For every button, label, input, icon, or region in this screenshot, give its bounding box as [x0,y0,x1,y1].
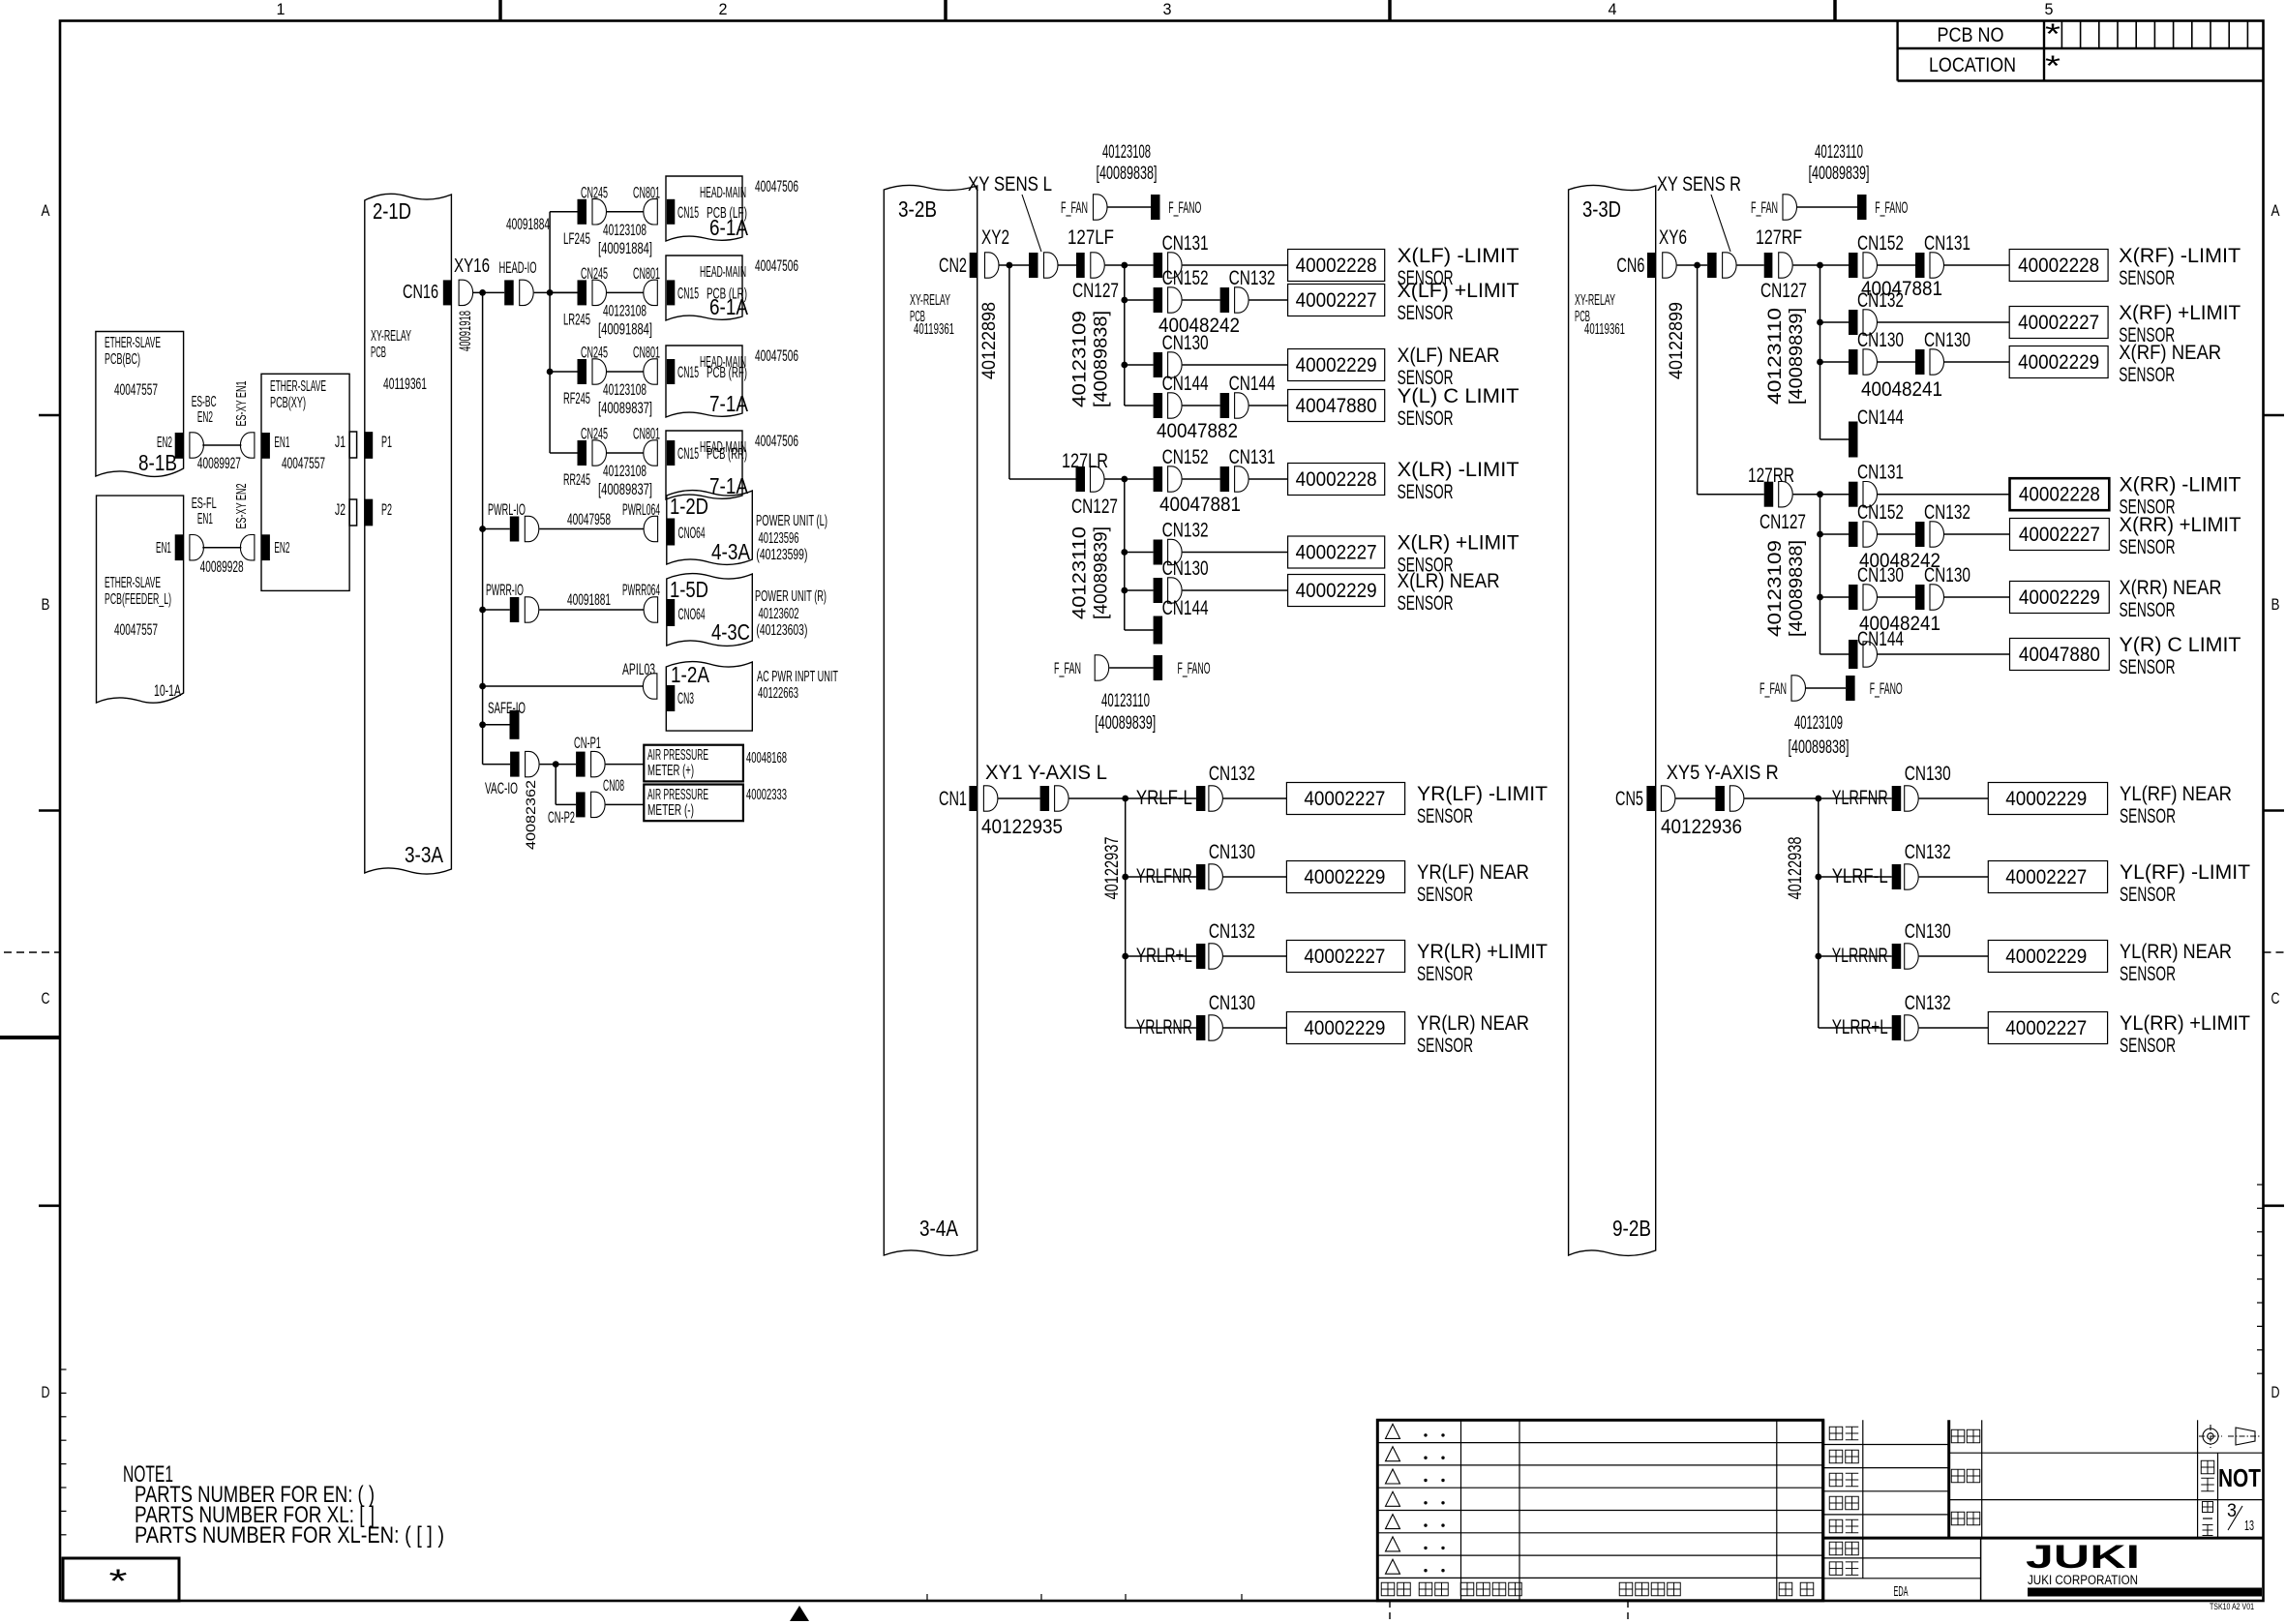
model table label column line [1981,1420,1983,1538]
svg-text:40002228: 40002228 [2018,255,2099,277]
connector 127LF plug [1076,253,1085,278]
wire CN152 to CN131 [1878,264,1915,266]
page label kanji ページ vertical [2203,1502,2213,1513]
svg-text:JUKI: JUKI [2026,1539,2140,1576]
wire bus corner to VAC-IO [483,764,510,766]
junction Y bus L row2 [1122,874,1128,881]
svg-text:40047506: 40047506 [755,432,798,450]
svg-text:CN132: CN132 [1229,267,1276,289]
svg-text:40122899: 40122899 [1667,302,1687,379]
svg-text:NOT: NOT [2218,1463,2261,1492]
wire PWRL-IO to PWRL064 cable 40047958 [539,528,646,530]
connector 127LF socket CN127 [1091,253,1104,278]
svg-text:B: B [42,595,50,614]
svg-text:POWER UNIT (L): POWER UNIT (L) [756,513,827,529]
svg-text:CN130: CN130 [1857,329,1904,351]
svg-text:CN245: CN245 [581,264,608,283]
connector PWRL-IO socket [525,516,539,541]
svg-text:XY-RELAY: XY-RELAY [371,328,411,345]
wire to sensor box 40002227 YLRR+L [1919,1027,1989,1029]
svg-text:10-1A: 10-1A [154,681,181,700]
box sensor part number 40002227 [1288,536,1385,568]
svg-text:C: C [2271,989,2280,1007]
wire sensor bus LF row4 [1125,405,1154,406]
revision table outline [1377,1420,1822,1601]
connector CN152 plug [1154,466,1163,492]
svg-text:PARTS NUMBER FOR XL-EN: ( [ ]: PARTS NUMBER FOR XL-EN: ( [ ] ) [135,1522,444,1549]
model label kanji 品番 [1951,1469,1965,1483]
junction sensor bus RF row2 [1817,319,1823,326]
svg-text:3-4A: 3-4A [919,1216,959,1241]
svg-text:40123109: 40123109 [1070,311,1091,407]
svg-text:40119361: 40119361 [914,321,954,338]
svg-text:40002227: 40002227 [1296,542,1377,564]
svg-text:[40089838]: [40089838] [1097,164,1158,184]
svg-text:XY5 Y-AXIS R: XY5 Y-AXIS R [1667,762,1779,784]
svg-text:[40089837]: [40089837] [598,399,652,417]
svg-text:F_FANO: F_FANO [1870,679,1903,698]
svg-text:METER (+): METER (+) [647,763,694,779]
connector CN152 plug [1849,522,1858,547]
connector SAFE-IO plug dead end [510,710,520,739]
svg-text:40047880: 40047880 [1296,395,1377,417]
svg-text:YLRF-L: YLRF-L [1832,865,1888,887]
model label kanji 品名 [1951,1512,1965,1525]
svg-text:CN801: CN801 [633,264,660,283]
connector CN801 socket LF [644,199,657,225]
junction XY6 branch [1694,262,1700,269]
wire to sensor box 40002228 [1183,264,1288,266]
approval labels kanji 検図 [1829,1450,1843,1463]
connector 127RR plug [1764,482,1774,507]
svg-text:1-2D: 1-2D [670,494,708,519]
wire bus to PWRR-IO [483,609,510,611]
svg-text:[40091884]: [40091884] [598,239,652,257]
connector CN245 socket RR [592,440,607,466]
junction left bus at PWRL row [479,526,486,532]
svg-text:[40089838]: [40089838] [1092,311,1112,407]
wire to sensor box 40002228 [1878,494,2010,496]
box sensor part number 40002229 [1288,349,1385,381]
connector CN131 plug [1154,253,1163,278]
connector F_FANO plug lower right [1846,676,1855,701]
svg-text:CN15: CN15 [677,284,699,302]
svg-text:40002227: 40002227 [2005,1017,2087,1039]
svg-text:40002228: 40002228 [1296,468,1377,491]
wire pair to Y bus [1069,797,1196,799]
connector CN152 plug [1849,253,1858,278]
svg-text:CN131: CN131 [1924,232,1970,255]
svg-text:CN3: CN3 [677,689,694,707]
wire head bus to CN245 LR [550,291,577,293]
revision table header kanji 担当 [1779,1582,1792,1596]
box sensor part number 40002229 YLRRNR [1988,941,2107,973]
svg-text:40123109: 40123109 [1765,540,1786,637]
wire XY5 to cable pair [1675,797,1715,799]
svg-text:EN1: EN1 [156,540,171,556]
junction sensor bus RR row1 [1817,491,1823,497]
svg-text:AIR PRESSURE: AIR PRESSURE [647,747,708,764]
svg-text:40091918: 40091918 [456,311,474,351]
svg-text:SENSOR: SENSOR [2120,656,2176,678]
svg-text:F_FANO: F_FANO [1875,198,1908,217]
svg-text:CN132: CN132 [1905,992,1951,1014]
svg-text:[40089839]: [40089839] [1809,164,1870,184]
box sensor part number 40002228 [2010,478,2110,510]
box sensor part number 40002227 YRLR+L [1286,941,1404,973]
svg-text:5: 5 [2045,0,2054,18]
connector CN132 plug YLRR+L [1892,1015,1902,1040]
svg-text:XY16: XY16 [454,256,490,277]
box sensor part number 40002227 [2010,519,2110,551]
junction sensor bus LF row1 [1121,262,1128,269]
svg-text:127RF: 127RF [1756,226,1802,249]
connector PWRR064 socket [644,597,658,622]
wire XY6 to cable pair [1677,264,1707,266]
junction Y bus R row1 [1815,796,1821,802]
svg-text:40123602: 40123602 [759,606,799,622]
svg-text:PCB: PCB [371,345,386,361]
wire XY2 to cable pair [1000,264,1030,266]
svg-text:SENSOR: SENSOR [2120,805,2176,827]
svg-text:YLRRNR: YLRRNR [1832,945,1888,967]
revision table header kanji 変更記事 [1619,1582,1633,1596]
svg-text:CN131: CN131 [1857,462,1904,484]
connector CN245 plug RR [578,440,587,466]
approval table label column line [1862,1420,1864,1579]
svg-text:SENSOR: SENSOR [2120,536,2176,558]
svg-text:40047557: 40047557 [114,380,158,399]
svg-text:CN15: CN15 [677,363,699,381]
connector CN245 socket RF [592,359,607,384]
connector CN132 socket YLRR+L [1905,1015,1919,1040]
connector CN3 plug [667,685,675,711]
box HEAD-MAIN PCB (LR) [666,256,742,320]
wire XY6 branch down to 127RR [1697,265,1699,495]
svg-text:P1: P1 [381,433,392,451]
zone tick marks top border [498,0,502,21]
svg-text:RR245: RR245 [563,470,590,489]
svg-text:YLRR+L: YLRR+L [1832,1016,1888,1038]
wire to sensor box 40002229 YRLFNR [1223,876,1287,878]
svg-text:EN2: EN2 [197,409,213,426]
svg-text:*: * [109,1563,128,1600]
vertical line right of storage value cells [1980,1538,1982,1601]
connector CN15 plug LF [667,199,675,225]
svg-text:[40089839]: [40089839] [1092,526,1112,619]
svg-text:X(LF) +LIMIT: X(LF) +LIMIT [1398,280,1519,302]
connector CN131 plug [1220,466,1230,492]
svg-text:3-3D: 3-3D [1582,196,1621,222]
connector CN132 socket YLRF-L [1905,864,1919,889]
connector CN152 socket [1168,466,1183,492]
wire pair to Y bus right [1744,797,1891,799]
connector 127LR socket CN127 [1091,466,1105,492]
svg-text:YRLFNR: YRLFNR [1136,865,1192,887]
connector CN130 plug [1154,578,1163,603]
connector CN130 socket [1930,585,1944,610]
connector VAC-IO socket [526,751,540,776]
wire CN245 to CN801 LR [607,291,645,293]
svg-text:*: * [2045,18,2060,50]
svg-text:SENSOR: SENSOR [2119,267,2175,289]
svg-text:40002229: 40002229 [2005,788,2087,810]
svg-text:XY SENS L: XY SENS L [968,173,1052,195]
svg-text:CN245: CN245 [581,183,608,201]
approval labels kanji 作成 [1829,1519,1843,1533]
approval table row lines [1823,1444,1949,1446]
svg-text:CN127: CN127 [1760,511,1806,533]
connector CN16 board plug [443,280,452,305]
connector cable socket 40122936 [1730,786,1744,811]
svg-text:4: 4 [1609,0,1617,18]
connector CN152 socket [1863,522,1877,547]
svg-text:CN132: CN132 [1905,841,1951,863]
svg-text:EDA: EDA [1894,1583,1909,1600]
svg-text:40122898: 40122898 [979,302,1000,379]
table PCB NO / LOCATION [1896,21,1898,81]
connector CN130 plug YLRRNR [1892,944,1902,969]
wire F_FAN upper left [1108,206,1152,208]
wire F_FAN upper right [1797,206,1857,208]
wire CN144 to CN144 [1183,405,1220,406]
svg-text:1: 1 [277,0,286,18]
svg-text:CN144: CN144 [1857,406,1904,429]
svg-text:40002229: 40002229 [1304,866,1385,888]
svg-text:40123108: 40123108 [603,462,647,480]
svg-text:SENSOR: SENSOR [2119,364,2175,386]
Y bus L vertical [1125,798,1127,1028]
connector CN132 socket [1863,310,1878,335]
wire PWRR-IO to PWRR064 cable 40091881 [539,609,646,611]
svg-text:EN1: EN1 [197,511,213,527]
svg-text:8-1B: 8-1B [138,450,177,475]
model label kanji 型式 [1951,1429,1965,1443]
svg-text:40122937: 40122937 [1102,837,1123,900]
connector plug P1 [364,432,373,459]
connector CN144 plug [1154,617,1163,645]
svg-text:F_FANO: F_FANO [1178,659,1211,677]
svg-text:D: D [42,1383,50,1401]
connector CN-P2 socket [591,792,606,817]
svg-text:CN801: CN801 [633,183,660,201]
svg-text:X(RR) NEAR: X(RR) NEAR [2120,577,2222,599]
connector CN152 socket [1863,253,1877,278]
svg-text:CN245: CN245 [581,344,608,362]
box sensor part number 40002229 YRLRNR [1286,1012,1404,1044]
connector CN130 plug YLRFNR [1892,786,1902,811]
storage rows lines [1823,1557,1981,1559]
revision triangles and date dots [1386,1424,1400,1438]
svg-text:ETHER-SLAVE: ETHER-SLAVE [105,335,161,351]
wire to sensor box 40002227 YRLR+L [1223,955,1287,957]
approval labels kanji 類似 [1829,1562,1843,1576]
connector plug P2 [364,499,373,526]
connector cable plug 40122936 [1715,786,1725,811]
connector CN132 socket [1168,539,1183,564]
svg-text:ES-XY EN2: ES-XY EN2 [233,484,250,529]
svg-text:3-3A: 3-3A [405,842,444,867]
svg-text:[40089839]: [40089839] [1787,308,1807,405]
connector CN132 plug [1154,540,1163,565]
svg-text:SENSOR: SENSOR [1417,884,1473,906]
wire CN130 to CN130 [1878,361,1915,363]
svg-text:CN127: CN127 [1760,280,1807,302]
svg-text:6-1A: 6-1A [709,215,749,240]
dashed fold mark left [4,951,60,953]
svg-text:J2: J2 [335,500,346,519]
leader line XY SENS L [1022,195,1041,252]
connector CN245 plug LF [578,199,587,225]
fine ruler ticks right border [2257,1184,2264,1186]
junction Y bus L row3 [1122,953,1128,960]
svg-text:40002229: 40002229 [1296,580,1377,602]
svg-text:[40089839]: [40089839] [1095,713,1156,734]
svg-text:LR245: LR245 [563,310,590,328]
model table row lines [1949,1452,2264,1454]
connector pair ES-FL EN1 to ES-XY EN2 cable 40089928 [190,535,204,560]
svg-text:CN-P1: CN-P1 [574,734,601,752]
svg-text:X(RR) +LIMIT: X(RR) +LIMIT [2120,514,2241,536]
svg-text:40047557: 40047557 [114,620,158,639]
fine ruler ticks left border [60,1368,67,1370]
head distribution bus wire [549,212,551,453]
svg-text:40047881: 40047881 [1159,494,1241,516]
connector F_FAN socket upper left [1094,195,1108,220]
svg-text:40002227: 40002227 [2019,524,2100,546]
wire CN152 to CN132 [1183,299,1220,301]
connector CN131 plug [1849,482,1858,507]
svg-text:40002229: 40002229 [1304,1017,1385,1039]
svg-text:CN801: CN801 [633,425,660,443]
box sensor part number 40002229 [2009,346,2108,378]
connector XY5 socket [1661,786,1675,811]
svg-text:PCB (RR): PCB (RR) [707,446,747,463]
svg-text:CN132: CN132 [1924,501,1970,524]
wire 127RF to sensor bus [1793,264,1849,266]
connector HEAD-IO plug [504,280,514,305]
connector CN130 socket YLRRNR [1905,944,1919,969]
connector EN1 board plug on FEEDER_L [175,534,184,560]
junction left bus at APIL row [479,683,486,690]
svg-text:CN08: CN08 [603,776,624,795]
wire VAC-IO to CN-P1 [540,764,577,766]
junction sensor bus RR row3 [1817,594,1823,601]
connector CN130 socket YLRFNR [1905,786,1919,811]
wire CN245 to CN801 RF [607,371,645,373]
connector CN144 plug [1849,640,1858,669]
wire CN152 to CN131 [1183,478,1220,480]
wire Y bus L row4 [1126,1027,1196,1029]
svg-text:X(RF) +LIMIT: X(RF) +LIMIT [2119,302,2241,324]
svg-text:SENSOR: SENSOR [1417,963,1473,985]
svg-text:PWRR064: PWRR064 [622,581,660,599]
connector CN131 socket [1168,253,1182,278]
svg-text:CN6: CN6 [1616,255,1644,277]
svg-text:HEAD-IO: HEAD-IO [499,258,537,277]
svg-text:PWRL-IO: PWRL-IO [488,500,526,519]
connector cable socket 40122935 [1055,786,1069,811]
junction head bus at RF row [547,369,554,376]
wire to sensor box 40002228 [1944,264,2009,266]
svg-text:CN152: CN152 [1162,446,1209,468]
junction sensor bus LF row3 [1121,362,1128,369]
connector CN130 plug YRLFNR [1196,864,1206,889]
svg-text:POWER UNIT (R): POWER UNIT (R) [755,588,827,605]
revision table header kanji 日付 [1419,1582,1432,1596]
box POWER UNIT (L) 1-2D 4-3A [667,491,753,565]
svg-text:40047880: 40047880 [2019,644,2100,666]
svg-text:CN1: CN1 [939,788,967,810]
wire 127RR to bus [1793,494,1849,496]
svg-text:CN5: CN5 [1615,788,1643,810]
connector CN15 plug RF [667,359,675,384]
svg-text:A: A [42,201,51,220]
svg-text:CN144: CN144 [1857,628,1904,650]
box HEAD-MAIN PCB (RF) [666,346,742,417]
svg-text:AC PWR INPT UNIT: AC PWR INPT UNIT [757,669,838,685]
connector CN130 plug YRLRNR [1196,1015,1206,1040]
svg-text:40002227: 40002227 [2005,866,2087,888]
connector jack J1 [349,432,357,458]
connector APIL03 socket [643,674,657,699]
connector F_FAN socket upper right [1783,195,1797,220]
svg-text:40048241: 40048241 [1861,378,1942,401]
svg-text:40123108: 40123108 [603,301,647,319]
connector PWRR-IO plug [510,597,520,622]
svg-text:CN132: CN132 [1857,289,1904,312]
svg-text:SENSOR: SENSOR [1398,592,1454,615]
approval labels kanji 設計 [1829,1473,1843,1487]
wire bus to PWRL-IO [483,528,510,530]
svg-text:40123109: 40123109 [1794,713,1843,734]
wire to sensor box 40002227 [1249,299,1288,301]
svg-text:40123110: 40123110 [1101,691,1150,711]
box sensor part number 40002227 [1288,285,1385,316]
connector CN131 plug [1915,253,1925,278]
wire Y bus R row4 [1819,1027,1892,1029]
svg-text:40122935: 40122935 [981,816,1063,838]
connector CN132 plug [1915,522,1925,547]
svg-text:PCB (RF): PCB (RF) [707,365,747,381]
box sensor part number 40002227 YRLF-L [1286,783,1404,815]
connector CN130 socket [1863,349,1877,375]
svg-text:X(LR) -LIMIT: X(LR) -LIMIT [1398,459,1519,481]
wire to sensor box 40002227 [1944,533,2010,535]
svg-text:CN130: CN130 [1924,329,1970,351]
svg-text:CN15: CN15 [677,444,699,463]
svg-text:CN801: CN801 [633,344,660,362]
svg-text:127LR: 127LR [1062,450,1108,472]
svg-text:SENSOR: SENSOR [1398,481,1454,503]
svg-text:SENSOR: SENSOR [1398,302,1454,324]
wire CN245 to CN801 RR [607,452,645,454]
svg-text:METER (-): METER (-) [647,802,694,819]
svg-text:40048168: 40048168 [746,750,787,767]
svg-text:SENSOR: SENSOR [2120,1035,2176,1057]
svg-text:XY1 Y-AXIS L: XY1 Y-AXIS L [985,762,1107,784]
connector CN144 plug [1849,422,1858,458]
svg-text:EN2: EN2 [157,435,172,451]
svg-text:40047882: 40047882 [1157,420,1238,442]
svg-text:SENSOR: SENSOR [1417,805,1473,827]
svg-text:40047506: 40047506 [755,346,798,365]
svg-text:CN131: CN131 [1162,232,1209,255]
svg-text:40002227: 40002227 [1296,289,1377,312]
svg-text:LOCATION: LOCATION [1929,54,2016,76]
junction Y bus R row2 [1815,874,1821,881]
wire to sensor box 40047880 [1249,405,1288,406]
